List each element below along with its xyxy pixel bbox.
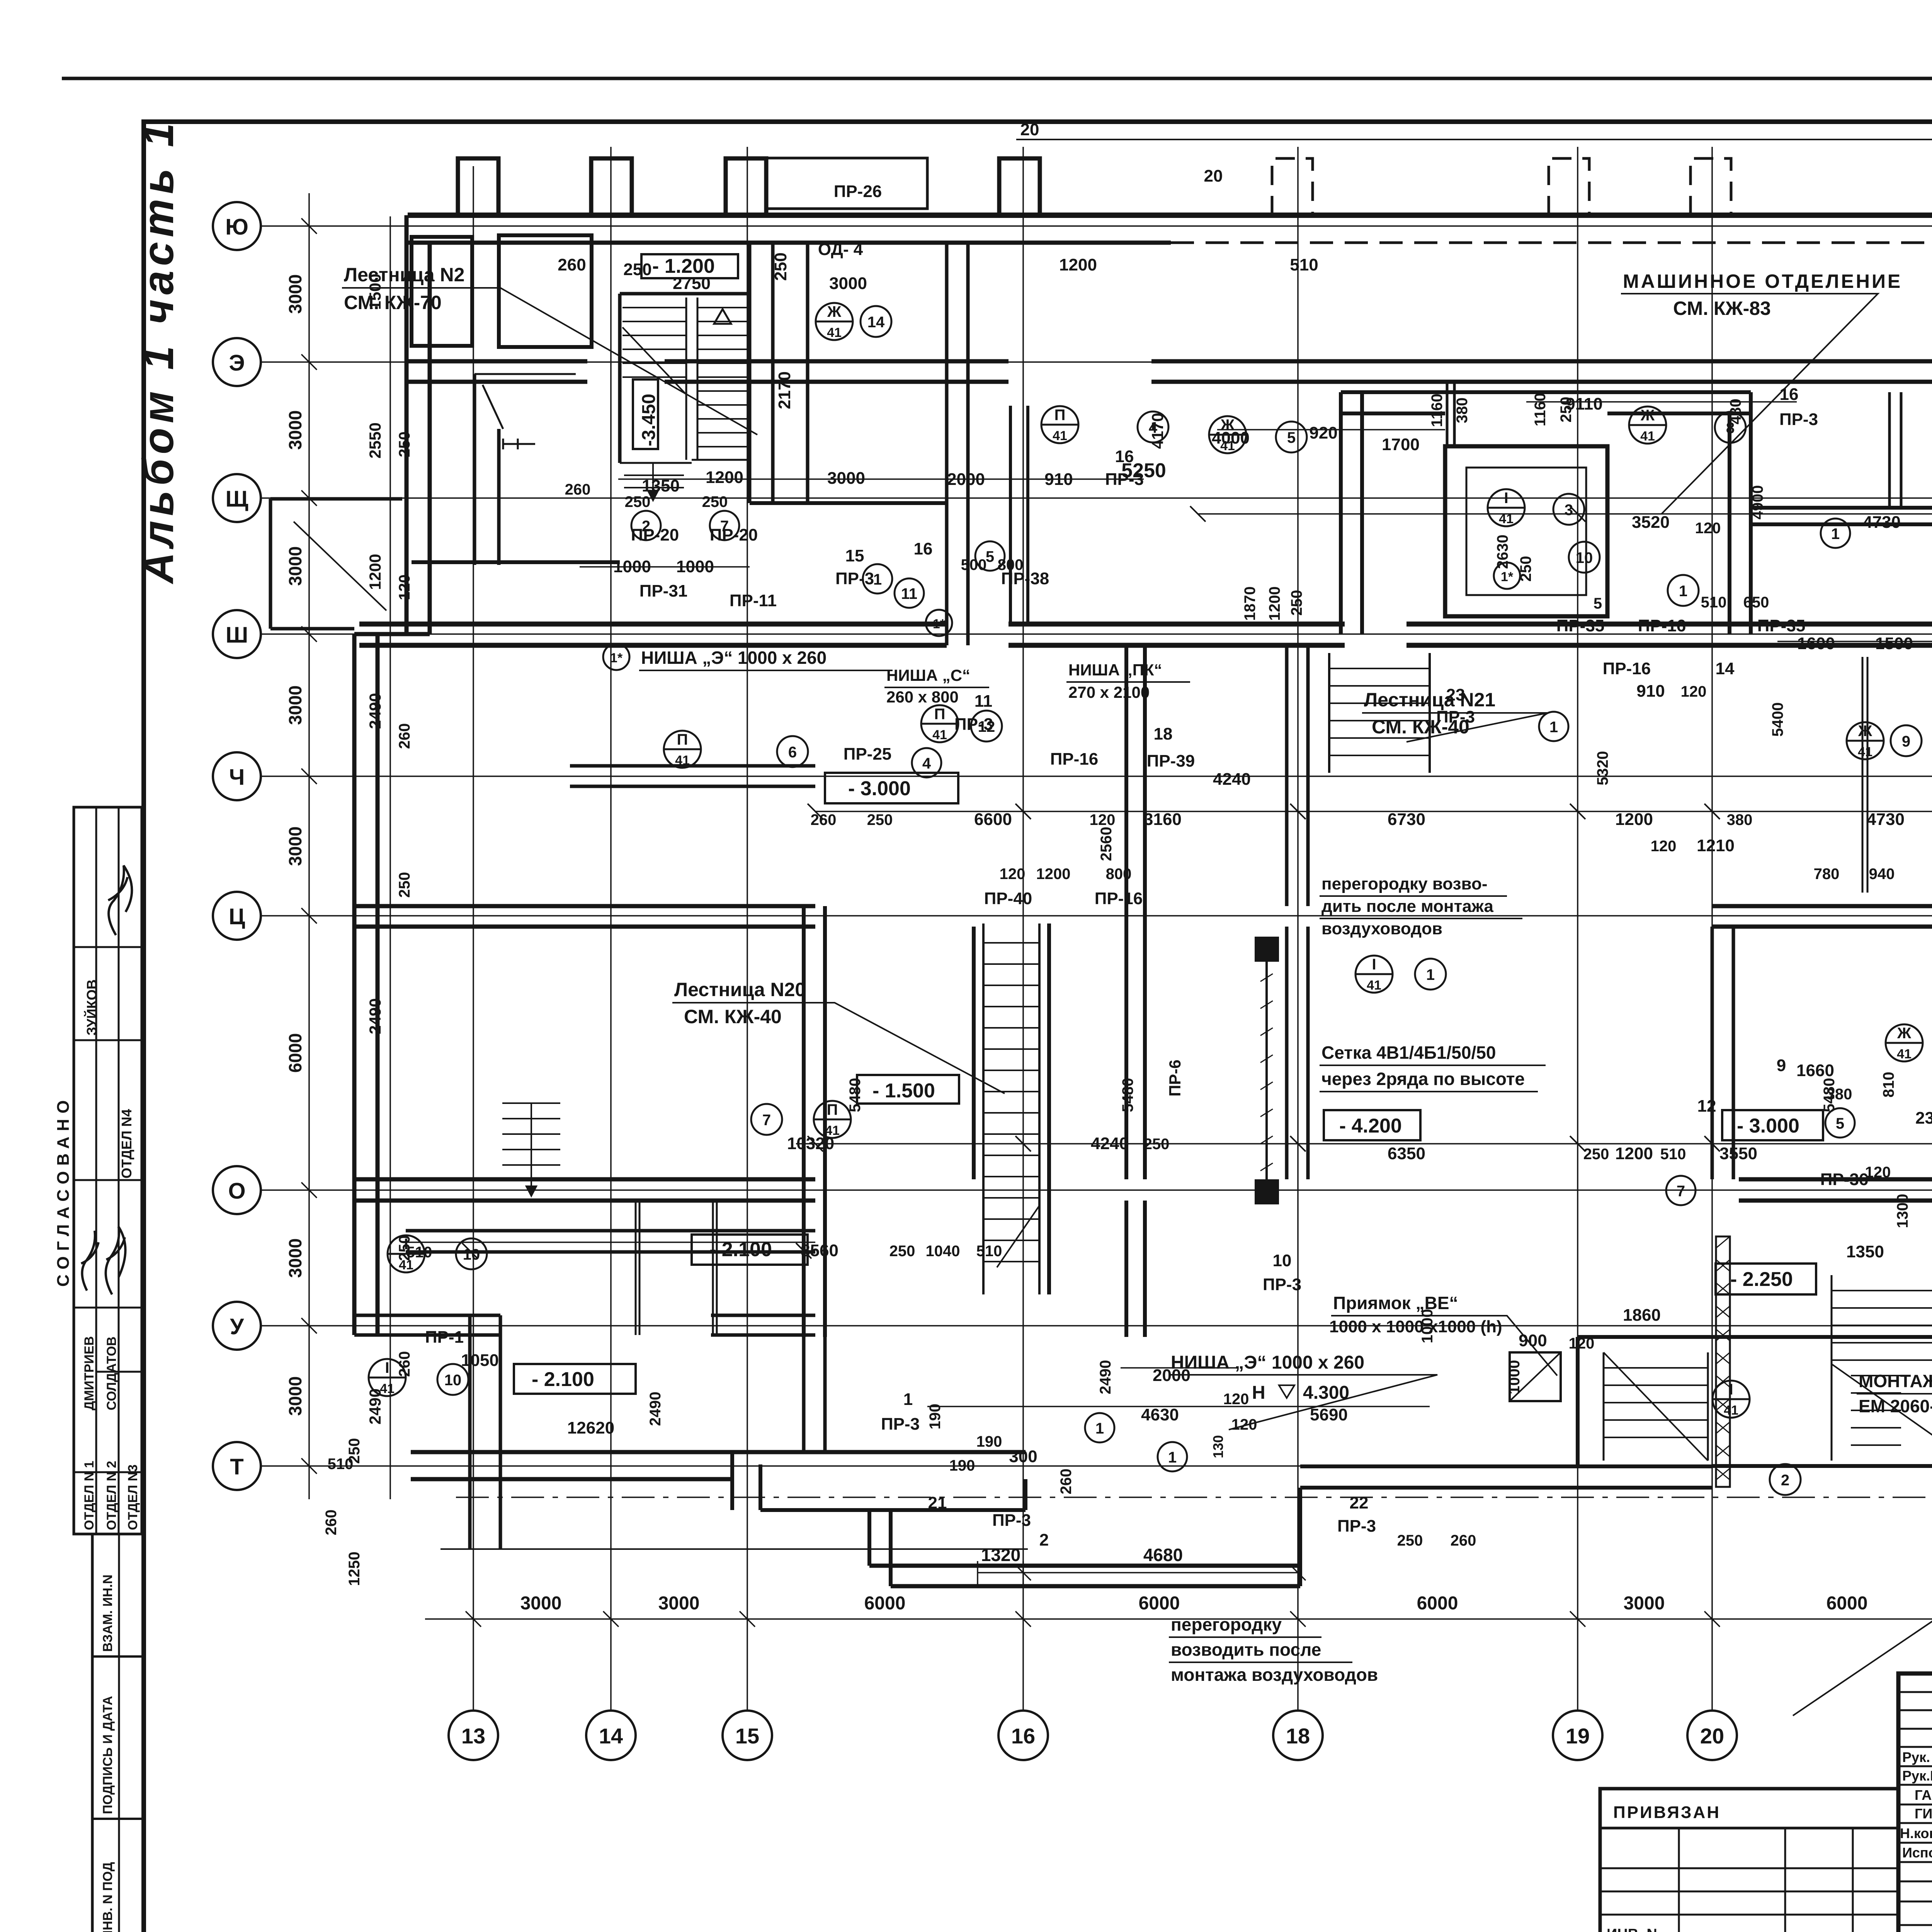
svg-text:5: 5 [1594, 595, 1602, 612]
svg-text:920: 920 [1309, 423, 1337, 442]
stair N21 center treads [1329, 653, 1430, 773]
svg-text:1000 x 1000 x1000 (h): 1000 x 1000 x1000 (h) [1329, 1317, 1502, 1336]
svg-text:ПР-3: ПР-3 [1779, 410, 1818, 429]
svg-text:2630: 2630 [1494, 535, 1511, 569]
grid O wall [354, 1179, 815, 1201]
svg-text:6000: 6000 [1417, 1593, 1458, 1614]
svg-text:Н: Н [1252, 1383, 1265, 1403]
svg-text:3160: 3160 [1144, 810, 1182, 829]
bottom wall center right [1300, 1466, 1712, 1488]
svg-text:Ж: Ж [1897, 1025, 1912, 1042]
svg-text:1600: 1600 [1797, 634, 1835, 653]
callout line 20 top [1016, 139, 1932, 140]
svg-text:перегородку возво-: перегородку возво- [1321, 874, 1487, 893]
svg-text:120: 120 [1223, 1391, 1249, 1408]
svg-text:4240: 4240 [1213, 770, 1251, 789]
svg-text:2170: 2170 [775, 371, 794, 409]
svg-text:Приямок „ВЕ“: Приямок „ВЕ“ [1333, 1293, 1458, 1313]
bottom exterior wall left [411, 1452, 1026, 1479]
svg-text:1700: 1700 [1382, 435, 1420, 454]
grid row line U [261, 1325, 1932, 1327]
svg-text:Альбом 1 часть 1: Альбом 1 часть 1 [134, 118, 182, 585]
svg-text:I: I [385, 1359, 389, 1376]
svg-text:1200: 1200 [1036, 866, 1071, 883]
svg-text:ЗУЙКОВ: ЗУЙКОВ [83, 980, 100, 1036]
svg-text:дить после монтажа: дить после монтажа [1321, 897, 1493, 916]
grid Ch partial walls [570, 766, 815, 786]
left exterior wall lower [354, 634, 378, 1335]
top wall pilaster 4 [999, 158, 1040, 215]
svg-text:СОГЛАСОВАНО: СОГЛАСОВАНО [54, 1095, 73, 1287]
svg-text:270 x 2100: 270 x 2100 [1068, 683, 1150, 701]
svg-text:ДМИТРИЕВ: ДМИТРИЕВ [82, 1336, 97, 1410]
svg-text:260: 260 [811, 811, 837, 828]
svg-text:ОТДЕЛ N4: ОТДЕЛ N4 [119, 1109, 134, 1179]
svg-text:510: 510 [1701, 594, 1727, 611]
room wall left of grid16 [1010, 406, 1028, 624]
svg-text:1200: 1200 [366, 554, 384, 590]
stair N2 top-left treads [620, 298, 750, 463]
svg-text:2: 2 [1781, 1472, 1789, 1489]
central vertical corridor wall [1126, 645, 1145, 1179]
svg-text:3000: 3000 [285, 685, 305, 725]
title block outline [1898, 1673, 1932, 1932]
stair N3 bottom right treads [1832, 1275, 1932, 1461]
svg-text:120: 120 [1681, 683, 1707, 700]
svg-text:650: 650 [1743, 594, 1769, 611]
svg-text:3000: 3000 [827, 469, 865, 488]
svg-text:6000: 6000 [1827, 1593, 1868, 1614]
bottom right block walls [1578, 1335, 1932, 1339]
svg-text:41: 41 [675, 753, 690, 768]
svg-text:3000: 3000 [1624, 1593, 1665, 1614]
wall right of machine room double [1751, 508, 1932, 524]
wall in room 8 [1889, 392, 1901, 508]
grid column line 19 [1577, 147, 1578, 1711]
svg-text:510: 510 [328, 1456, 354, 1473]
svg-text:41: 41 [1367, 978, 1381, 993]
svg-text:ВЗАМ. ИН.N: ВЗАМ. ИН.N [100, 1575, 115, 1652]
svg-text:ПР-16: ПР-16 [1603, 659, 1651, 678]
svg-text:5480: 5480 [1119, 1078, 1136, 1112]
svg-text:41: 41 [380, 1381, 395, 1396]
svg-text:260 x 800: 260 x 800 [886, 688, 959, 706]
svg-text:190: 190 [976, 1433, 1002, 1450]
svg-text:23: 23 [1446, 685, 1465, 704]
grid row line Tse [261, 915, 1932, 917]
svg-text:5480: 5480 [847, 1078, 864, 1112]
svg-text:I: I [1372, 956, 1376, 973]
svg-text:120: 120 [1569, 1335, 1595, 1352]
svg-text:120: 120 [1651, 838, 1677, 855]
svg-text:260: 260 [1058, 1469, 1075, 1495]
rooms E-Shcha band [474, 374, 499, 565]
svg-text:19: 19 [1566, 1724, 1590, 1748]
left dimension labels [285, 274, 413, 1586]
svg-text:МОНТАЖНЫЙ ПРО-: МОНТАЖНЫЙ ПРО- [1859, 1371, 1932, 1391]
svg-text:4680: 4680 [1143, 1545, 1183, 1565]
small basement stair left [502, 1103, 560, 1196]
grid 13 wall at bottom left [470, 1315, 500, 1549]
svg-text:3000: 3000 [285, 546, 305, 586]
svg-text:810: 810 [1880, 1072, 1897, 1098]
left outside entrance block [270, 499, 402, 629]
svg-text:Ю: Ю [225, 214, 248, 240]
interior vertical wall x2450-2610 right shaft [947, 243, 968, 645]
svg-text:6000: 6000 [864, 1593, 906, 1614]
svg-text:Рук.КБ1: Рук.КБ1 [1902, 1768, 1932, 1784]
interior wall x2080 bottom [804, 1337, 825, 1453]
svg-text:380: 380 [1727, 811, 1753, 828]
top wall pilaster 5 (dashed) [1272, 158, 1313, 215]
svg-text:П: П [934, 706, 946, 723]
svg-text:-3.450: -3.450 [639, 394, 659, 446]
svg-text:16: 16 [1115, 447, 1134, 466]
svg-text:ПР-20: ПР-20 [710, 526, 758, 544]
bottom band center [869, 1510, 891, 1586]
svg-text:130: 130 [1210, 1435, 1226, 1458]
svg-text:Э: Э [229, 350, 245, 376]
svg-text:2000: 2000 [1153, 1366, 1190, 1385]
stair N2 shaft walls [620, 243, 750, 503]
svg-text:3520: 3520 [1632, 513, 1670, 532]
svg-text:4170: 4170 [1148, 413, 1167, 449]
interior vertical wall x3330 [1287, 645, 1308, 906]
corridor walls right of stair N2 [773, 243, 808, 503]
svg-text:260: 260 [396, 723, 413, 749]
lower stamp column [92, 1534, 145, 1932]
svg-text:1500: 1500 [1875, 634, 1913, 653]
svg-text:ПР-3: ПР-3 [954, 715, 993, 734]
svg-text:2750: 2750 [673, 274, 711, 293]
stair N2 lower small flight [624, 464, 684, 500]
svg-text:250: 250 [1583, 1146, 1609, 1163]
top wall pilaster 6 (dashed) [1549, 158, 1589, 215]
svg-text:910: 910 [1636, 682, 1665, 701]
stamp scribbles [81, 866, 132, 1294]
svg-text:СМ. КЖ-40: СМ. КЖ-40 [684, 1006, 782, 1027]
svg-text:СОЛДАТОВ: СОЛДАТОВ [104, 1337, 119, 1410]
svg-text:22: 22 [1350, 1493, 1369, 1512]
grid column line 18 [1297, 147, 1299, 1711]
svg-text:1: 1 [1426, 966, 1435, 983]
svg-text:250: 250 [623, 260, 651, 279]
wall above machine room [1447, 382, 1454, 446]
svg-text:300: 300 [1009, 1447, 1037, 1466]
svg-text:1320: 1320 [981, 1545, 1020, 1565]
svg-text:- 2.100: - 2.100 [532, 1368, 594, 1391]
svg-text:2: 2 [1039, 1531, 1049, 1549]
small rooms left of stair N2 (Yu-E band) [412, 237, 472, 346]
svg-text:41: 41 [932, 728, 947, 742]
machine room block [1341, 392, 1362, 634]
svg-text:13: 13 [461, 1724, 485, 1748]
montage opening crosshatched strip [1716, 1236, 1730, 1487]
svg-text:4730: 4730 [1863, 513, 1901, 532]
svg-text:6000: 6000 [285, 1033, 305, 1073]
svg-text:9: 9 [1777, 1056, 1786, 1075]
stair N20 flanking walls [974, 923, 1049, 1294]
svg-text:- 3.000: - 3.000 [848, 777, 911, 800]
svg-text:НИША „Э“ 1000 x 260: НИША „Э“ 1000 x 260 [641, 648, 827, 668]
svg-text:- 2.250: - 2.250 [1730, 1268, 1793, 1291]
svg-text:перегородку: перегородку [1171, 1614, 1282, 1634]
vertical wall grid18 lower [1287, 927, 1308, 1179]
grid Tse wall [354, 906, 815, 927]
svg-text:10: 10 [1576, 549, 1593, 566]
grid row circles [213, 202, 261, 1490]
svg-text:ПР-11: ПР-11 [730, 591, 777, 610]
svg-text:10: 10 [1273, 1251, 1292, 1270]
svg-text:МАШИННОЕ ОТДЕЛЕНИЕ: МАШИННОЕ ОТДЕЛЕНИЕ [1623, 270, 1902, 292]
svg-text:1*: 1* [610, 651, 623, 665]
svg-text:1200: 1200 [1059, 255, 1097, 274]
svg-text:1200: 1200 [706, 468, 743, 487]
svg-text:ПР-16: ПР-16 [1050, 750, 1099, 769]
svg-text:260: 260 [565, 481, 591, 498]
svg-text:О: О [228, 1179, 245, 1204]
svg-text:Ж: Ж [1858, 723, 1872, 740]
svg-text:П: П [677, 731, 688, 748]
svg-text:380: 380 [1454, 398, 1471, 423]
svg-text:250: 250 [702, 493, 728, 510]
mesh anchor squares [1255, 937, 1279, 962]
svg-text:1050: 1050 [461, 1351, 499, 1370]
svg-text:940: 940 [1869, 866, 1895, 883]
svg-text:6600: 6600 [974, 810, 1012, 829]
svg-text:5: 5 [1287, 429, 1296, 446]
svg-text:1*: 1* [1501, 570, 1514, 584]
svg-text:1250: 1250 [346, 1552, 363, 1586]
svg-text:4: 4 [922, 755, 931, 772]
title block signature rows [1898, 1692, 1932, 1925]
svg-text:ПР-36: ПР-36 [1820, 1170, 1869, 1189]
svg-text:250: 250 [1517, 556, 1534, 582]
svg-text:2550: 2550 [366, 422, 384, 458]
svg-text:800: 800 [998, 556, 1024, 573]
svg-text:1200: 1200 [1266, 587, 1283, 621]
grid row line Yu [261, 225, 1932, 227]
svg-text:ПР-3: ПР-3 [835, 569, 874, 588]
grid column circles [449, 1631, 1932, 1760]
svg-text:воздуховодов: воздуховодов [1321, 919, 1442, 938]
svg-text:20: 20 [1020, 120, 1039, 139]
mid dimension lines [406, 402, 1932, 1406]
leader underlines and arrows [342, 288, 1932, 1716]
svg-text:800: 800 [1106, 866, 1132, 883]
svg-text:через 2ряда по высоте: через 2ряда по высоте [1321, 1069, 1525, 1089]
svg-text:41: 41 [1053, 429, 1067, 443]
svg-text:120: 120 [1695, 520, 1721, 537]
svg-text:1: 1 [1549, 719, 1558, 736]
PR-26 opening box [767, 158, 927, 209]
svg-text:3000: 3000 [520, 1593, 562, 1614]
svg-text:1: 1 [1679, 583, 1687, 600]
svg-text:ПОДПИСЬ И ДАТА: ПОДПИСЬ И ДАТА [100, 1696, 115, 1814]
svg-text:1350: 1350 [1846, 1242, 1884, 1261]
svg-text:1870: 1870 [1242, 587, 1259, 621]
svg-text:1000: 1000 [1419, 1309, 1436, 1344]
machine room inner box [1445, 446, 1607, 616]
svg-text:1860: 1860 [1623, 1306, 1661, 1325]
svg-text:11: 11 [975, 692, 993, 711]
svg-text:16: 16 [1780, 385, 1799, 404]
svg-text:120: 120 [1090, 811, 1116, 828]
svg-text:12620: 12620 [567, 1418, 614, 1437]
svg-text:15: 15 [845, 546, 864, 565]
svg-text:41: 41 [827, 325, 842, 340]
svg-text:НИША „ПК“: НИША „ПК“ [1068, 661, 1162, 679]
svg-text:41: 41 [1858, 745, 1872, 759]
svg-text:Н.контр.: Н.контр. [1900, 1825, 1932, 1841]
svg-text:510: 510 [1660, 1146, 1686, 1163]
svg-text:возводить после: возводить после [1171, 1639, 1321, 1660]
svg-text:- 1.500: - 1.500 [872, 1080, 935, 1102]
svg-text:У: У [230, 1314, 244, 1339]
svg-text:ГИП: ГИП [1915, 1806, 1932, 1821]
svg-text:НИША „Э“ 1000 x 260: НИША „Э“ 1000 x 260 [1171, 1352, 1364, 1373]
svg-text:Рук. АБ1: Рук. АБ1 [1902, 1749, 1932, 1765]
bottom wall jog [732, 1452, 1026, 1510]
svg-text:ПР-16: ПР-16 [1638, 616, 1686, 635]
svg-text:10: 10 [463, 1246, 480, 1263]
svg-text:Ж: Ж [1640, 407, 1655, 424]
svg-text:5: 5 [986, 548, 994, 565]
svg-text:ОД- 4: ОД- 4 [818, 240, 863, 259]
soglasovano block [74, 807, 142, 1534]
svg-text:1160: 1160 [1532, 393, 1549, 427]
left exterior wall upper [406, 215, 430, 634]
svg-text:3000: 3000 [285, 410, 305, 450]
svg-text:ПР-20: ПР-20 [631, 526, 679, 544]
svg-text:250: 250 [396, 872, 413, 898]
svg-text:ИНВ. N: ИНВ. N [1607, 1926, 1657, 1932]
svg-text:3000: 3000 [658, 1593, 700, 1614]
svg-text:- 3.000: - 3.000 [1737, 1115, 1799, 1137]
svg-text:2490: 2490 [366, 693, 384, 729]
svg-text:ПР-3: ПР-3 [1337, 1517, 1376, 1536]
svg-text:ПР-3: ПР-3 [1436, 707, 1475, 726]
interior vertical wall x2080 mid [804, 906, 825, 1337]
grid row line O [261, 1189, 1932, 1191]
svg-text:250: 250 [1558, 397, 1575, 423]
dividing walls between -2.100 rooms [636, 1201, 717, 1335]
svg-text:18: 18 [1286, 1724, 1310, 1748]
svg-text:120: 120 [1000, 866, 1026, 883]
privyazan block [1600, 1789, 1898, 1932]
svg-text:250: 250 [625, 493, 651, 510]
top wall pilaster 1 [458, 158, 498, 215]
grid row line Sha [261, 633, 1932, 635]
svg-text:8560: 8560 [801, 1241, 838, 1260]
svg-text:190: 190 [949, 1457, 975, 1474]
svg-text:260: 260 [323, 1510, 340, 1536]
sub dimension 1320 4680 [978, 1561, 1306, 1584]
svg-text:2390: 2390 [1915, 1109, 1932, 1128]
svg-text:5690: 5690 [1310, 1405, 1348, 1424]
svg-text:510: 510 [1290, 255, 1318, 274]
svg-text:1: 1 [1831, 526, 1840, 543]
priyamok square [1510, 1352, 1561, 1401]
stair by -2.250 treads [1604, 1352, 1708, 1461]
svg-text:ПР-3: ПР-3 [1263, 1275, 1301, 1294]
svg-text:6350: 6350 [1388, 1144, 1425, 1163]
svg-text:монтажа воздуховодов: монтажа воздуховодов [1171, 1665, 1378, 1685]
svg-text:780: 780 [1814, 866, 1840, 883]
svg-text:20: 20 [1204, 167, 1223, 185]
grid row line E [261, 361, 1932, 363]
svg-text:1660: 1660 [1796, 1061, 1834, 1080]
svg-text:1: 1 [1095, 1420, 1104, 1437]
grid row line T [261, 1465, 1932, 1467]
grid column line 13 [473, 166, 474, 1711]
svg-text:4630: 4630 [1141, 1405, 1179, 1424]
svg-text:1000: 1000 [1506, 1360, 1523, 1395]
svg-text:3000: 3000 [285, 827, 305, 866]
svg-text:ПР-25: ПР-25 [844, 745, 892, 764]
svg-text:6730: 6730 [1388, 810, 1425, 829]
svg-text:380: 380 [1827, 1086, 1852, 1103]
svg-text:Т: Т [230, 1454, 243, 1480]
svg-text:16: 16 [1011, 1724, 1035, 1748]
svg-text:3: 3 [1565, 502, 1573, 519]
svg-text:Лестница N2: Лестница N2 [344, 264, 464, 286]
svg-text:ОТДЕЛ N 2: ОТДЕЛ N 2 [104, 1461, 119, 1530]
svg-text:6: 6 [788, 744, 797, 761]
svg-text:ПР-16: ПР-16 [1095, 889, 1143, 908]
svg-text:1200: 1200 [1615, 1144, 1653, 1163]
svg-text:1040: 1040 [926, 1243, 960, 1260]
svg-text:Ч: Ч [229, 765, 245, 790]
grid column line 14 [610, 147, 612, 1711]
grid row line Shcha [261, 497, 1932, 499]
svg-text:1210: 1210 [1697, 836, 1735, 855]
svg-text:ПР-1: ПР-1 [425, 1328, 464, 1347]
svg-text:ОТДЕЛ N 1: ОТДЕЛ N 1 [82, 1461, 97, 1530]
svg-text:18: 18 [1154, 724, 1173, 743]
svg-text:НИША „С“: НИША „С“ [886, 666, 970, 684]
svg-text:21: 21 [928, 1493, 947, 1512]
svg-text:Лестница N21: Лестница N21 [1364, 689, 1495, 711]
svg-text:1: 1 [903, 1390, 913, 1409]
sheet outer border top [62, 77, 1932, 80]
grid U partial wall [354, 1315, 500, 1335]
svg-text:250: 250 [1288, 590, 1305, 616]
svg-text:1: 1 [873, 571, 882, 588]
svg-text:120: 120 [1231, 1416, 1257, 1433]
stair N20 treads [983, 923, 1039, 1294]
svg-text:ПР-35: ПР-35 [1556, 616, 1605, 635]
svg-text:510: 510 [406, 1244, 432, 1261]
svg-text:- 4.200: - 4.200 [1339, 1115, 1402, 1137]
svg-text:5320: 5320 [1594, 751, 1611, 786]
top wall pilaster 7 (dashed) [1690, 158, 1731, 215]
grid column line 15 [747, 147, 748, 1711]
interior vertical wall x4431 [1712, 927, 1733, 1179]
svg-text:7: 7 [1677, 1183, 1685, 1200]
svg-text:СМ. КЖ-83: СМ. КЖ-83 [1673, 298, 1771, 319]
svg-text:5: 5 [1836, 1115, 1844, 1132]
mid dimension line ticks [462, 506, 1932, 1259]
svg-text:250: 250 [1397, 1532, 1423, 1549]
svg-text:ГАП: ГАП [1915, 1787, 1932, 1803]
svg-text:ПР-3: ПР-3 [881, 1415, 920, 1434]
svg-text:7: 7 [762, 1112, 771, 1129]
svg-text:14: 14 [1716, 659, 1735, 678]
svg-text:4000: 4000 [1212, 429, 1250, 447]
svg-text:14: 14 [867, 314, 885, 331]
svg-text:Ц: Ц [229, 904, 245, 929]
